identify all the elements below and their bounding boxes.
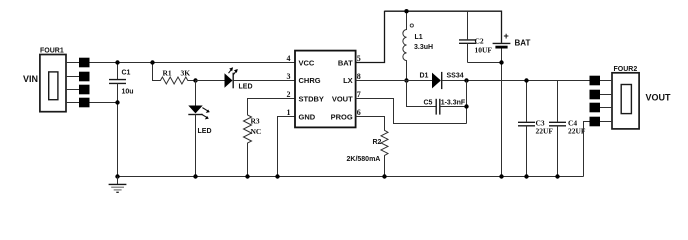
svg-text:R3: R3 [251, 117, 260, 126]
op IC U1 body [295, 51, 356, 128]
svg-text:3: 3 [287, 72, 291, 81]
svg-text:10UF: 10UF [475, 46, 493, 55]
pin number 8 [357, 72, 361, 81]
svg-text:PROG: PROG [331, 113, 353, 122]
IC U1 pin names left [299, 59, 324, 122]
FOUR2 pin 2 square [590, 90, 613, 100]
svg-text:2K/580mA: 2K/580mA [347, 156, 381, 163]
node junction C3 top [524, 78, 528, 82]
IC U1 pin names right [331, 59, 354, 122]
wire FOUR2 pin4 to ground rail [584, 122, 591, 177]
wire U1 VOUT pin7 to output node [356, 99, 467, 124]
resistor R1 3K [153, 63, 196, 85]
wire LX line pin8 to D1 [356, 80, 432, 82]
pin number 2 [287, 90, 291, 99]
FOUR1 pin 3 square [66, 85, 90, 95]
svg-text:2: 2 [287, 90, 291, 99]
svg-text:VCC: VCC [299, 59, 315, 68]
svg-text:C2: C2 [475, 37, 484, 46]
pin number 5 [357, 54, 361, 63]
svg-text:FOUR2: FOUR2 [614, 66, 638, 73]
node junction LX / L1 / C5 [404, 78, 408, 82]
connector FOUR2 body [612, 73, 639, 129]
svg-text:6: 6 [357, 108, 361, 117]
node junction R1 tap on VIN rail [150, 60, 154, 64]
svg-text:R1: R1 [163, 69, 172, 78]
node junction L1 top on BAT rail [404, 9, 408, 13]
connector FOUR2 label [614, 66, 638, 73]
svg-text:LED: LED [239, 84, 253, 91]
svg-text:8: 8 [357, 72, 361, 81]
capacitor C2 [459, 11, 476, 62]
svg-text:3K: 3K [181, 69, 191, 78]
battery BAT symbol [468, 43, 511, 176]
node junction output after D1 [464, 78, 468, 82]
svg-text:BAT: BAT [338, 59, 353, 68]
pin number 3 [287, 72, 291, 81]
resistor R3 NC [244, 99, 296, 177]
resistor R2 [356, 117, 388, 177]
battery plus sign [504, 31, 509, 41]
wire LED1 to U1 CHRG [233, 80, 295, 82]
wire output node down leg [466, 81, 468, 124]
svg-text:7: 7 [357, 90, 361, 99]
svg-text:CHRG: CHRG [299, 76, 321, 85]
label C3 22UF [536, 119, 554, 136]
capacitor C1 [109, 63, 126, 177]
svg-text:STDBY: STDBY [299, 95, 324, 104]
node junction ground C3 [524, 174, 528, 178]
svg-text:FOUR1: FOUR1 [40, 48, 64, 55]
node junction C5 right [464, 104, 468, 108]
label R2 2K/580mA [347, 139, 382, 163]
net label BAT [515, 39, 531, 48]
FOUR2 pin 1 square [590, 76, 613, 86]
svg-text:R2: R2 [373, 139, 382, 146]
node junction ground C4 [555, 174, 559, 178]
svg-text:1: 1 [287, 108, 291, 117]
net label VOUT [646, 93, 672, 103]
diode D1 SS34 [432, 72, 442, 89]
label D1 SS34 [420, 73, 464, 80]
svg-text:BAT: BAT [515, 39, 531, 48]
pin number 1 [287, 108, 291, 117]
node junction ground R3 [245, 174, 249, 178]
connector FOUR1 body [40, 55, 66, 112]
node junction ground C1 [115, 174, 119, 178]
svg-text:5: 5 [357, 54, 361, 63]
FOUR1 pin 1 square [66, 58, 90, 68]
svg-text:3.3uH: 3.3uH [414, 44, 433, 51]
ground rail [118, 176, 584, 178]
svg-text:22UF: 22UF [536, 127, 554, 136]
node junction LED branch [193, 78, 197, 82]
pin number 6 [357, 108, 361, 117]
wire FOUR1 pin4 to C1 bottom node [90, 102, 118, 104]
node junction C1 top on VIN rail [115, 60, 119, 64]
FOUR2 pin 4 square [590, 117, 613, 127]
pin number 7 [357, 90, 361, 99]
label LED1 [239, 84, 253, 91]
node junction ground U1 [275, 174, 279, 178]
inductor L1 [403, 11, 414, 80]
node junction ground battery [499, 174, 503, 178]
ground symbol [109, 177, 127, 193]
label C5 1-3.3nF [424, 99, 466, 106]
connector FOUR1 label [40, 48, 64, 55]
svg-text:VIN: VIN [23, 74, 38, 84]
svg-text:SS34: SS34 [447, 73, 464, 80]
label R1 3K [163, 69, 191, 78]
svg-text:GND: GND [299, 113, 316, 122]
LED D-LED1 horizontal [225, 67, 238, 88]
FOUR1 pin 2 square [66, 72, 90, 82]
FOUR2 pin 3 square [590, 103, 613, 113]
svg-text:LED: LED [198, 128, 212, 135]
FOUR1 pin 4 square [66, 98, 90, 108]
svg-text:LX: LX [343, 76, 353, 85]
capacitor C4 [549, 81, 566, 177]
wire VIN rail from FOUR1 pin1 to U1 VCC [90, 62, 296, 64]
wire BAT pin5 to top rail to battery [356, 11, 502, 63]
capacitor C3 [518, 81, 535, 177]
svg-text:+: + [504, 31, 509, 41]
label LED2 [198, 128, 212, 135]
svg-text:10u: 10u [122, 89, 134, 96]
svg-text:VOUT: VOUT [332, 95, 353, 104]
svg-text:D1: D1 [420, 73, 429, 80]
wire U1 GND to ground rail [278, 117, 296, 177]
net label VIN [23, 74, 38, 84]
label L1 3.3uH [414, 34, 433, 51]
svg-text:4: 4 [287, 54, 291, 63]
wire output rail D1 cathode to FOUR2 pin1 [442, 80, 590, 82]
svg-text:VOUT: VOUT [646, 93, 672, 103]
node junction C1 bottom / FOUR1 pin4 [115, 100, 119, 104]
wire CHRG line to LED1 [196, 80, 225, 82]
svg-text:L1: L1 [415, 34, 423, 41]
svg-text:1-3.3nF: 1-3.3nF [441, 99, 466, 106]
node junction ground LED2 [193, 174, 197, 178]
LED D-LED2 vertical [188, 81, 210, 177]
svg-text:C1: C1 [122, 70, 131, 77]
label C4 22UF [568, 119, 586, 136]
svg-text:C5: C5 [424, 99, 433, 106]
svg-text:NC: NC [251, 127, 262, 136]
node junction battery bottom [499, 60, 503, 64]
label C2 10UF [475, 37, 493, 55]
label C1 value 10u [122, 70, 134, 96]
node junction ground R2 [382, 174, 386, 178]
label R3 NC [251, 117, 262, 136]
pin number 4 [287, 54, 291, 63]
capacitor C5 [407, 81, 467, 115]
